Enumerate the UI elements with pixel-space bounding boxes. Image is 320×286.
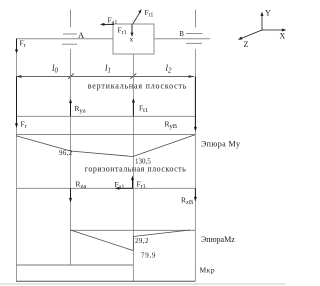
reaction Rza arrow down <box>69 188 72 202</box>
force Fr1 arrow up (horizontal plane) <box>131 176 134 189</box>
axis Z <box>241 30 262 39</box>
My baseline <box>16 133 195 135</box>
svg-text:x: x <box>130 34 134 43</box>
torque diagram bottom line <box>16 280 195 282</box>
svg-text:X: X <box>280 32 286 41</box>
svg-text:вертикальная плоскость: вертикальная плоскость <box>88 82 188 91</box>
axis X <box>262 29 285 31</box>
svg-text:горизонтальная плоскость: горизонтальная плоскость <box>85 165 187 174</box>
load line horizontal plane <box>16 187 195 189</box>
dimension line <box>16 73 194 78</box>
force Fr at shaft end (top) <box>15 39 18 54</box>
shaft left segment <box>16 38 113 40</box>
bearing B symbol <box>186 10 203 44</box>
coordinate axes XYZ <box>238 12 286 40</box>
load line vertical plane <box>16 115 195 117</box>
shaft right segment <box>154 38 210 40</box>
svg-text:79,9: 79,9 <box>141 252 156 260</box>
svg-text:29,2: 29,2 <box>135 237 149 245</box>
svg-text:Мкр: Мкр <box>200 266 216 275</box>
svg-text:96,2: 96,2 <box>59 149 73 157</box>
grid vertical bearing A x70.5 <box>70 49 72 265</box>
force Ft1 arrow up (vertical plane) <box>132 98 135 116</box>
svg-text:Z: Z <box>244 40 249 49</box>
grid vertical gear x133 <box>132 54 134 281</box>
reaction RzB arrow down <box>194 188 197 201</box>
reaction Rya arrow up <box>69 99 72 117</box>
Mz moment diagram left segment <box>71 230 134 251</box>
Mz moment diagram right segment <box>133 230 190 237</box>
reaction RyB arrow down <box>194 77 197 132</box>
page rule bottom <box>0 283 286 285</box>
force Fa1 arrow left (horizontal plane) <box>115 187 133 190</box>
My moment diagram polyline <box>16 135 195 157</box>
svg-text:Эпюра Мy: Эпюра Мy <box>201 140 240 149</box>
svg-text:ЭпюраМz: ЭпюраМz <box>201 235 235 244</box>
gear box <box>113 24 154 54</box>
Mz step at gear <box>132 237 134 251</box>
tick at A <box>68 73 74 78</box>
torque diagram top line <box>16 264 133 266</box>
tick at gear <box>130 73 136 78</box>
force Fr arrow down (vertical plane, left end) <box>15 77 18 129</box>
force Fa1 arrow (axial, left) <box>100 23 114 26</box>
svg-text:Y: Y <box>265 9 271 18</box>
force Fr1 small arrow to point x <box>131 24 134 37</box>
grid vertical left end x16 <box>16 53 18 281</box>
Mz baseline <box>71 229 196 231</box>
bearing A symbol <box>62 10 77 45</box>
axis Y <box>261 14 263 30</box>
grid vertical bearing B x195 <box>194 49 196 281</box>
svg-text:B: B <box>179 30 184 38</box>
svg-text:A: A <box>78 30 85 40</box>
force Ft1 arrow (tangential, diagonal) <box>133 9 142 24</box>
